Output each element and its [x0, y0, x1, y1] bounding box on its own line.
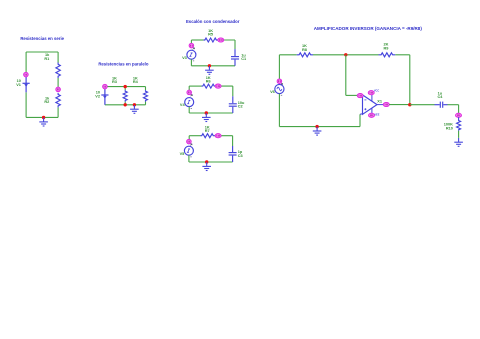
- VEE pill: [369, 113, 375, 117]
- svg-text:C4: C4: [437, 95, 443, 99]
- voltage source V1 body: [23, 77, 30, 92]
- inverting input pill: [357, 94, 363, 98]
- wire V6 branch lower: [278, 94, 280, 127]
- node terminal of V4: [187, 90, 192, 95]
- output pill: [383, 102, 389, 106]
- op-amp noninverting pin lead: [360, 113, 363, 116]
- wire inverting branch horizontal: [346, 94, 358, 96]
- ground output branch: [454, 138, 463, 146]
- ground circuit4: [313, 127, 322, 135]
- minus mark V3: [193, 60, 194, 62]
- wire bottom circuit3a: [191, 65, 235, 67]
- junction dot circuit3c: [205, 160, 208, 163]
- svg-text:V3: V3: [182, 56, 187, 60]
- svg-text:R3: R3: [112, 80, 117, 84]
- wire bottom circuit1: [26, 116, 58, 118]
- wire corner down to pill: [458, 105, 460, 114]
- minus mark V6: [281, 94, 282, 96]
- svg-text:R6: R6: [206, 80, 211, 84]
- wire stub R3 bottom: [124, 102, 126, 105]
- svg-text:R9: R9: [383, 46, 388, 50]
- sine glyph V6: [277, 87, 282, 91]
- voltage source V2 body: [101, 89, 108, 105]
- svg-text:V6: V6: [270, 90, 275, 94]
- node terminal of V2: [103, 84, 108, 89]
- wire output to C4: [410, 104, 435, 106]
- resistor R4: [144, 90, 148, 102]
- node pill after R6: [215, 84, 221, 88]
- svg-text:R8: R8: [302, 48, 308, 52]
- ground circuit2: [130, 105, 139, 113]
- svg-text:R7: R7: [205, 129, 210, 133]
- node A between R1 R2: [56, 87, 61, 92]
- svg-text:C3: C3: [238, 154, 243, 158]
- plus arrow V3: [193, 48, 195, 50]
- resistor R9: [379, 53, 396, 57]
- wire left lower circuit1: [25, 92, 27, 117]
- node terminal of V6: [277, 79, 282, 84]
- ground circuit3b: [202, 113, 211, 121]
- step glyph V5: [187, 149, 190, 153]
- resistor R1: [56, 63, 60, 79]
- wire inverting branch vertical: [345, 55, 347, 96]
- wire top-left circuit3a: [191, 39, 203, 41]
- op-amp VEE pin lead: [371, 108, 373, 117]
- wire bottom circuit4: [279, 126, 360, 128]
- svg-text:Escalón con condensador: Escalón con condensador: [186, 19, 240, 24]
- junction dot summing node: [344, 53, 347, 56]
- capacitor C4: [435, 102, 448, 108]
- wire bottom circuit3c: [189, 161, 233, 163]
- wire left lower circuit3b: [188, 107, 190, 113]
- svg-text:VEE: VEE: [374, 113, 379, 116]
- junction dot output node: [408, 103, 411, 106]
- svg-text:R4: R4: [133, 80, 139, 84]
- wire right upper circuit1: [57, 52, 59, 63]
- op-amp plus input mark: [364, 108, 366, 110]
- resistor R7: [201, 134, 215, 138]
- capacitor C1: [231, 49, 239, 66]
- svg-text:Resistencias en paralelo: Resistencias en paralelo: [98, 61, 149, 66]
- VCC pill: [368, 91, 374, 95]
- svg-text:R1: R1: [44, 57, 50, 61]
- junction dot R3 top: [124, 85, 127, 88]
- wire stub R4 bottom: [145, 102, 147, 105]
- wire left upper circuit3a: [190, 40, 192, 43]
- junction dot circuit3a: [208, 64, 211, 67]
- svg-text:R10: R10: [446, 126, 453, 130]
- node pill after R7: [215, 134, 221, 138]
- minus mark V5: [190, 156, 191, 158]
- junction dot circuit1: [42, 116, 45, 119]
- svg-text:C2: C2: [238, 105, 243, 109]
- capacitor C2: [229, 96, 237, 113]
- resistor R3: [123, 90, 127, 102]
- wire right circuit3a: [234, 40, 236, 49]
- wire right circuit3c: [232, 136, 234, 146]
- svg-text:VCC: VCC: [374, 89, 379, 92]
- resistor R8: [297, 53, 313, 57]
- wire top segment V6 to R8: [279, 54, 296, 56]
- ground circuit1: [39, 118, 48, 126]
- wire C4 to corner: [448, 104, 459, 106]
- wire output to junction: [389, 104, 410, 106]
- capacitor C3: [229, 146, 237, 162]
- source V6 circle: [275, 84, 284, 93]
- resistor R5: [204, 38, 218, 42]
- wire top-right circuit3c: [215, 135, 233, 137]
- svg-text:V2: V2: [95, 95, 100, 99]
- wire left lower circuit3a: [190, 59, 192, 66]
- wire R10 to ground: [458, 131, 460, 138]
- op-amp minus input mark: [364, 99, 366, 101]
- R10 node pill: [456, 113, 462, 117]
- junction dot R3 bottom: [124, 103, 127, 106]
- plus arrow V4: [190, 95, 192, 97]
- wire bottom circuit3b: [189, 112, 233, 114]
- wire right circuit3b: [232, 86, 234, 96]
- junction dot ground circuit4: [315, 125, 318, 128]
- wire left lower circuit3c: [188, 155, 190, 162]
- wire top-right circuit3a: [218, 39, 235, 41]
- svg-text:C1: C1: [241, 57, 247, 61]
- op-amp VCC pin lead: [371, 91, 373, 101]
- plus arrow V5: [190, 144, 192, 146]
- source V3 circle: [187, 50, 196, 59]
- wire noninverting riser: [359, 114, 361, 126]
- wire top segment R8 to R9: [313, 54, 379, 56]
- node terminal of V3: [189, 43, 194, 48]
- wire feedback right vertical: [409, 55, 411, 105]
- wire stub R3 top: [124, 87, 126, 91]
- wire top-left circuit3b: [189, 85, 201, 87]
- step glyph V4: [187, 100, 190, 104]
- ground circuit3c: [202, 162, 211, 170]
- wire bottom circuit2: [105, 104, 146, 106]
- wire top circuit1: [26, 51, 58, 53]
- junction dot ground circuit2: [133, 103, 136, 106]
- wire between R1 and node: [57, 78, 59, 87]
- resistor R6: [202, 84, 216, 88]
- wire left upper circuit1: [25, 52, 27, 72]
- svg-text:R2: R2: [44, 100, 49, 104]
- step glyph V3: [189, 53, 192, 57]
- wire top-right circuit3b: [216, 85, 233, 87]
- junction dot circuit3b: [205, 111, 208, 114]
- op-amp X1 triangle: [363, 95, 378, 114]
- wire left upper circuit3b: [188, 86, 190, 90]
- plus arrow V6: [281, 83, 283, 85]
- wire left upper circuit3c: [188, 136, 190, 140]
- svg-text:Resistencias en serie: Resistencias en serie: [20, 36, 64, 41]
- svg-text:R5: R5: [208, 33, 214, 37]
- wire top segment R9 to corner: [395, 54, 410, 56]
- resistor R10: [457, 120, 461, 131]
- wire top circuit2: [105, 86, 146, 88]
- op-amp output lead: [377, 104, 383, 106]
- svg-text:AMPLIFICADOR INVERSOR (GANANCI: AMPLIFICADOR INVERSOR (GANANCIA = -R9/R8…: [314, 26, 423, 31]
- source V5 circle: [184, 146, 193, 155]
- ground circuit3a: [205, 66, 214, 74]
- minus mark V4: [191, 107, 192, 109]
- wire pill to R10: [458, 117, 460, 119]
- wire below R2: [57, 107, 59, 117]
- wire top-left circuit3c: [189, 135, 200, 137]
- wire stub R4 top: [145, 87, 147, 91]
- node terminal of V5: [187, 139, 192, 144]
- source V4 circle: [185, 98, 194, 107]
- node pill after R5: [218, 38, 224, 42]
- resistor R2: [56, 93, 60, 108]
- wire V6 branch upper: [278, 55, 280, 79]
- node terminal of V1: [24, 72, 29, 77]
